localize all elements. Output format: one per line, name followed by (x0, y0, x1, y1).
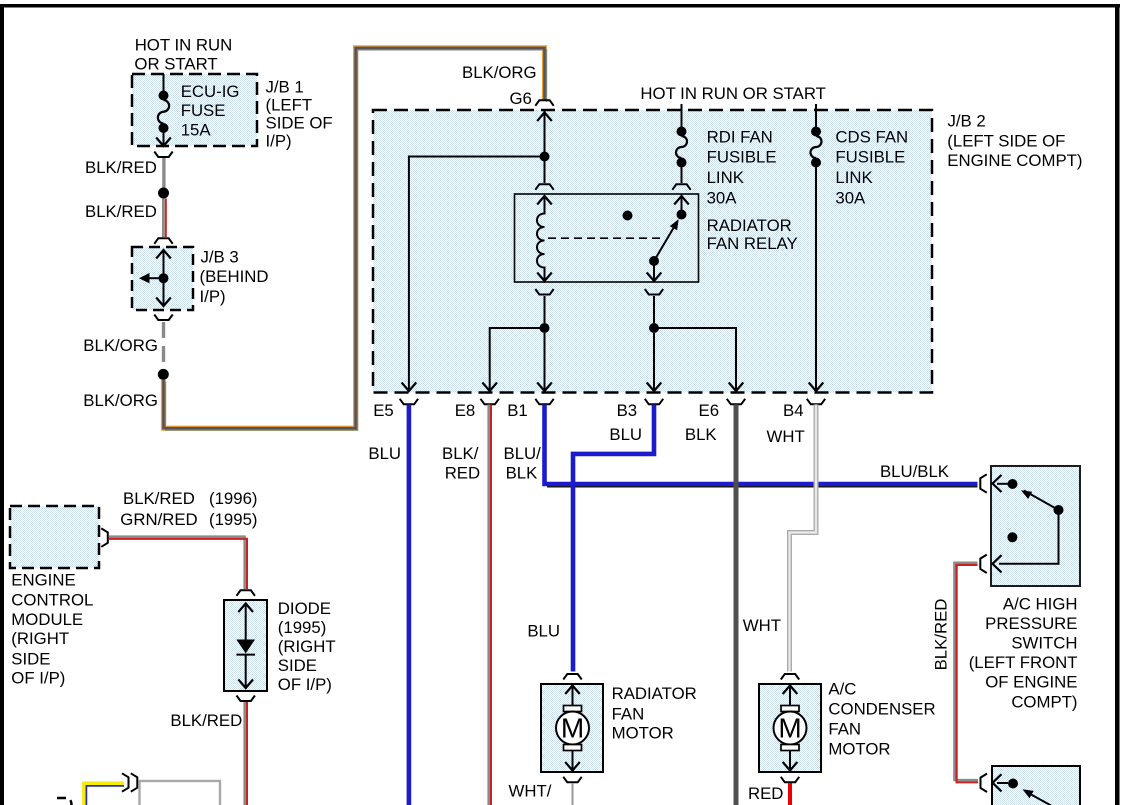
svg-text:RED: RED (445, 464, 480, 483)
label RED (748, 784, 783, 803)
label pin B4 (783, 401, 804, 420)
connector pair female (131, 773, 138, 791)
wire BLK/RED from E8 gray stripe (487, 405, 489, 805)
svg-text:(RIGHT: (RIGHT (278, 637, 336, 656)
svg-text:COMPT): COMPT) (1011, 692, 1077, 711)
label BLK/RED under E8 (442, 444, 480, 483)
border frame left (0, 4, 4, 805)
connector under J/B2 exit B1 (535, 399, 553, 405)
wire BLK/ORG dashed segment (162, 322, 165, 367)
fusible link CDS element (811, 136, 822, 158)
svg-text:B1: B1 (507, 401, 528, 420)
wire BLK/ORG loop dark core (164, 48, 545, 428)
fuse ECU-IG top terminal dot (159, 91, 169, 101)
svg-text:E5: E5 (373, 401, 394, 420)
label A/C HIGH PRESSURE SWITCH (969, 594, 1078, 711)
label HOT IN RUN OR START (top) (640, 84, 826, 103)
svg-text:BLK/RED: BLK/RED (85, 202, 157, 221)
label pin B3 (617, 401, 638, 420)
connector above radiator fan motor (563, 674, 581, 680)
wire diode down red stripe (246, 702, 248, 805)
label pin E5 (373, 401, 394, 420)
relay switch down arrow (647, 273, 662, 282)
switch lower path (999, 510, 1059, 564)
svg-text:LINK: LINK (835, 168, 872, 187)
wire ECM to diode red stripe (109, 539, 247, 589)
svg-text:I/P): I/P) (200, 287, 226, 306)
connector at ECM output (101, 528, 108, 546)
label WHT near motor (743, 616, 781, 635)
switch A/C HIGH PRESSURE SWITCH box (991, 466, 1080, 586)
svg-text:A/C HIGH: A/C HIGH (1003, 594, 1078, 613)
wire switch to B3 node (653, 296, 655, 323)
svg-text:G6: G6 (510, 89, 532, 108)
relay switch to B3 (653, 261, 655, 281)
relay coil (537, 196, 545, 281)
relay switch arm (654, 226, 675, 261)
label BLK/ORG second (83, 391, 158, 410)
svg-text:J/B 2: J/B 2 (948, 111, 986, 130)
svg-text:BLK: BLK (506, 464, 538, 483)
svg-text:B3: B3 (617, 401, 638, 420)
svg-text:OF I/P): OF I/P) (11, 669, 65, 688)
wire diode down gray stripe (243, 702, 245, 805)
svg-text:BLK/RED: BLK/RED (85, 158, 157, 177)
label BLK/RED rotated (932, 599, 951, 671)
wire E6 branch (654, 328, 736, 391)
svg-text:E8: E8 (455, 401, 476, 420)
diode symbol bar (236, 654, 255, 656)
label GRN/RED (1995) (120, 510, 257, 529)
diode up arrow (238, 604, 253, 640)
bottom switch entry arrow (993, 774, 1002, 791)
svg-text:(1995): (1995) (278, 618, 327, 637)
wire ECM to diode gray stripe (109, 537, 245, 589)
svg-text:SIDE: SIDE (11, 649, 50, 668)
motor A/C CONDENSER FAN MOTOR box (759, 684, 821, 772)
svg-text:(BEHIND: (BEHIND (200, 267, 269, 286)
wire WHT from B4 core (790, 405, 817, 672)
svg-text:PRESSURE: PRESSURE (985, 614, 1077, 633)
svg-text:CONDENSER: CONDENSER (828, 700, 935, 719)
connector under J/B2 exit B3 (645, 399, 663, 405)
svg-text:(LEFT SIDE OF: (LEFT SIDE OF (947, 132, 1065, 151)
wire B3 down (653, 333, 655, 391)
fusible link RDI top dot (677, 127, 687, 137)
svg-text:FUSIBLE: FUSIBLE (707, 147, 777, 166)
svg-text:BLK/RED: BLK/RED (123, 489, 195, 508)
svg-text:LINK: LINK (707, 168, 744, 187)
switch top contact dot (1008, 479, 1018, 489)
svg-text:HOT IN RUN OR START: HOT IN RUN OR START (640, 84, 826, 103)
svg-text:WHT: WHT (743, 616, 781, 635)
label J/B 3 (BEHIND I/P) (200, 248, 269, 307)
svg-text:BLK/ORG: BLK/ORG (83, 391, 158, 410)
border frame top (0, 4, 1120, 8)
connector above diode (237, 590, 255, 596)
label WHT/ cutoff (509, 782, 552, 801)
wire BLK/RED from E8 red stripe (490, 405, 492, 805)
connector at switch BLK/RED entry (980, 555, 987, 573)
switch top entry wire (997, 483, 1008, 485)
label RDI FAN FUSIBLE LINK 30A (707, 127, 777, 207)
connector under radiator fan motor (563, 777, 581, 783)
label HOT IN RUN OR START (left) (134, 35, 232, 73)
switch top entry arrow (993, 475, 1002, 492)
wire BLK/RED switch red stripe (957, 565, 978, 782)
label J/B 1 (LEFT SIDE OF I/P) (266, 77, 333, 150)
bottom switch arm (1032, 795, 1052, 805)
label BLK/RED (1996) (123, 489, 258, 508)
wire BLK/RED segment 2 gray (162, 199, 165, 238)
diode symbol triangle (236, 640, 255, 654)
wire BLU/BLK from B1 to switch (545, 405, 978, 485)
arrow down B1 exit (537, 383, 552, 392)
switch pivot dot (1054, 505, 1064, 515)
svg-text:ECU-IG: ECU-IG (181, 82, 240, 101)
wire E5 branch (409, 157, 545, 391)
condenser motor up arrow (783, 686, 798, 706)
svg-text:(RIGHT: (RIGHT (11, 629, 69, 648)
label RADIATOR FAN RELAY (707, 216, 798, 253)
wire WHT from B4 outline (790, 405, 817, 672)
svg-text:30A: 30A (835, 189, 866, 208)
svg-text:(1995): (1995) (209, 510, 258, 529)
label BLU near motor (527, 622, 560, 641)
arrow down E8 exit (482, 383, 497, 392)
fusible link CDS bottom dot (811, 158, 821, 168)
svg-text:SWITCH: SWITCH (1011, 634, 1077, 653)
bottom switch arm arrowhead (1023, 789, 1034, 798)
label BLK/RED second (85, 202, 157, 221)
wire BLK/RED switch gray stripe (954, 563, 978, 780)
label WHT under B4 (767, 427, 805, 446)
connector under J/B1 (154, 152, 172, 158)
switch bottom entry arrow (993, 555, 1002, 572)
switch arm arrowhead (1021, 490, 1032, 499)
svg-text:A/C: A/C (828, 680, 856, 699)
svg-text:FAN: FAN (828, 720, 861, 739)
label DIODE (1995) (RIGHT SIDE OF I/P) (278, 599, 336, 694)
bottom switch contact dot (1008, 779, 1018, 789)
junction node dot 2 (158, 369, 169, 380)
relay switch wire from RDI (681, 196, 683, 211)
node B1/E8 dot (540, 323, 550, 333)
svg-text:CDS FAN: CDS FAN (835, 127, 908, 146)
svg-text:BLK/: BLK/ (442, 444, 479, 463)
wire E8 branch (490, 328, 545, 391)
relay switch up arrow (674, 196, 689, 205)
radiator motor brush bottom (564, 745, 582, 751)
connector above relay switch (672, 184, 690, 190)
label CDS FAN FUSIBLE LINK 30A (835, 127, 908, 207)
label RADIATOR FAN MOTOR (612, 684, 697, 743)
label BLU/BLK (880, 462, 949, 481)
border frame right (1115, 4, 1120, 805)
svg-text:WHT/: WHT/ (509, 782, 552, 801)
wire BLU from E5 (407, 405, 412, 805)
svg-text:DIODE: DIODE (278, 599, 331, 618)
wire BLK/ORG loop orange casing (164, 48, 545, 428)
svg-text:30A: 30A (707, 189, 738, 208)
fuse ECU-IG bottom terminal dot (159, 123, 169, 133)
fusible link CDS top dot (811, 127, 821, 137)
J/B3 left branch with filled arrow (139, 273, 164, 283)
svg-text:BLK/ORG: BLK/ORG (462, 63, 537, 82)
svg-text:FUSE: FUSE (181, 101, 226, 120)
wire BLU/BLK black stripe (547, 486, 978, 488)
label BLK/RED first (85, 158, 157, 177)
radiator motor brush top (564, 706, 582, 712)
wire BLK/RED segment 1 (162, 158, 165, 188)
svg-text:(LEFT FRONT: (LEFT FRONT (969, 653, 1078, 672)
label pin E6 (699, 401, 720, 420)
wire BLK/RED segment 2 red stripe (165, 199, 167, 238)
diode box (224, 600, 267, 691)
svg-text:OF ENGINE: OF ENGINE (985, 673, 1077, 692)
svg-text:BLK/RED: BLK/RED (170, 711, 242, 730)
wire BLK/ORG loop green edge (165, 50, 546, 430)
fusible link RDI bottom dot (677, 158, 687, 168)
svg-text:WHT: WHT (767, 427, 805, 446)
fuse ECU-IG element (158, 100, 169, 124)
arrow down B4 exit (809, 383, 824, 392)
svg-text:(LEFT: (LEFT (266, 95, 313, 114)
ECM box fill+dashed border (10, 506, 99, 568)
wire RDI fusible link from HOT (681, 104, 683, 127)
svg-text:OF I/P): OF I/P) (278, 675, 332, 694)
label ECU-IG FUSE 15A (181, 82, 240, 140)
wire YEL yellow (84, 783, 124, 805)
condenser motor M letter (778, 713, 801, 744)
connector G6 above J/B2 (535, 100, 553, 106)
svg-text:E6: E6 (699, 401, 720, 420)
label BLK/ORG at G6 (462, 63, 537, 82)
J/B3 down arrow (156, 298, 171, 307)
arrow up below G6 (537, 113, 552, 122)
svg-text:FAN: FAN (612, 704, 645, 723)
connector at switch BLU/BLK entry (980, 474, 987, 492)
svg-text:BLU: BLU (609, 425, 642, 444)
svg-text:B4: B4 (783, 401, 804, 420)
svg-text:RDI FAN: RDI FAN (707, 127, 773, 146)
svg-text:BLK/RED: BLK/RED (932, 599, 951, 671)
svg-text:SIDE OF: SIDE OF (266, 113, 333, 132)
radiator motor down arrow (565, 751, 580, 771)
node B3/E6 dot (649, 323, 659, 333)
wire RDI to relay (681, 167, 683, 183)
relay switch arm arrowhead (670, 219, 679, 230)
J/B3 internal vertical wire (163, 251, 165, 305)
arrow down to J/B1 bottom (156, 132, 171, 146)
svg-text:BLK: BLK (685, 425, 717, 444)
svg-text:SIDE: SIDE (278, 656, 317, 675)
svg-text:ENGINE COMPT): ENGINE COMPT) (947, 151, 1082, 170)
wire CDS down to B4 exit (815, 167, 817, 391)
connector under relay coil (535, 289, 553, 295)
relay free contact dot (623, 211, 633, 221)
junction box J/B 1 fill+dashed border (132, 74, 257, 146)
motor RADIATOR FAN MOTOR box (541, 684, 603, 772)
connector under J/B2 exit E5 (400, 399, 418, 405)
switch (bottom, partial) box (992, 766, 1080, 805)
connector under condenser fan motor (781, 777, 799, 783)
wire coil to B1 node (544, 296, 546, 323)
wire CDS fusible link from HOT (815, 104, 817, 127)
svg-text:CONTROL: CONTROL (11, 591, 93, 610)
label BLK/RED under diode (170, 711, 242, 730)
svg-text:15A: 15A (181, 120, 212, 139)
svg-text:BLU: BLU (527, 622, 560, 641)
radiator motor M circle (556, 712, 589, 745)
wire node to relay coil (544, 161, 546, 183)
fusible link RDI element (676, 136, 687, 158)
wire RED below condenser motor (788, 783, 792, 805)
wire from G6 down to node (544, 111, 546, 152)
connector under J/B3 (154, 315, 172, 321)
junction box J/B 3 fill+dashed border (132, 247, 193, 310)
svg-text:RADIATOR: RADIATOR (707, 216, 792, 235)
connector above relay coil (535, 184, 553, 190)
J/B3 up arrow (156, 250, 171, 259)
connector under J/B2 exit B4 (807, 399, 825, 405)
label BLK under E6 (685, 425, 717, 444)
radiator motor up arrow (565, 686, 580, 706)
condenser motor M circle (774, 712, 807, 745)
svg-text:MODULE: MODULE (11, 610, 83, 629)
label ENGINE CONTROL MODULE (11, 570, 93, 687)
svg-text:GRN/RED: GRN/RED (120, 510, 197, 529)
label BLU/BLK under B1 (504, 444, 542, 483)
svg-text:J/B 1: J/B 1 (266, 77, 304, 96)
svg-text:ENGINE: ENGINE (11, 570, 75, 589)
label J/B 2 (LEFT SIDE OF ENGINE COMPT) (947, 111, 1082, 170)
relay switch fixed contact dot (677, 210, 687, 220)
svg-text:RED: RED (748, 784, 783, 803)
connector pair male (122, 773, 129, 791)
gray component box (partial) (140, 781, 221, 805)
junction box J/B 2 fill+dashed border (373, 110, 932, 393)
svg-text:BLU: BLU (368, 444, 401, 463)
switch arm (1024, 491, 1059, 511)
relay switch pivot dot (649, 256, 659, 266)
label A/C CONDENSER FAN MOTOR (828, 680, 935, 759)
connector above J/B3 (154, 238, 172, 244)
relay coil down arrow (537, 273, 552, 282)
svg-text:M: M (561, 713, 584, 744)
connector under relay switch (645, 289, 663, 295)
svg-text:MOTOR: MOTOR (612, 724, 674, 743)
wire WHT below radiator motor (572, 783, 574, 805)
label G6 (510, 89, 532, 108)
svg-text:BLU/: BLU/ (504, 444, 542, 463)
svg-text:FAN RELAY: FAN RELAY (707, 234, 798, 253)
wire into ECU-IG fuse (163, 74, 165, 91)
diode down arrow (238, 655, 253, 688)
condenser motor down arrow (783, 751, 798, 771)
svg-text:RADIATOR: RADIATOR (612, 684, 697, 703)
wire BLU from B3 to radiator fan motor (573, 405, 654, 672)
J/B3 junction dot (159, 273, 169, 283)
label pin E8 (455, 401, 476, 420)
connector under diode (237, 696, 255, 702)
label BLU under E5 (368, 444, 401, 463)
dashed box corner fragment (57, 798, 72, 805)
wire B1 down (544, 333, 546, 391)
relay RADIATOR FAN RELAY box (515, 194, 699, 282)
junction node dot 1 (158, 188, 169, 199)
arrow down E6 exit (729, 383, 744, 392)
connector under J/B2 exit E6 (727, 399, 745, 405)
svg-text:I/P): I/P) (266, 131, 292, 150)
svg-text:BLU/BLK: BLU/BLK (880, 462, 949, 481)
label BLK/ORG first (83, 336, 158, 355)
arrow down E5 exit (402, 383, 417, 392)
svg-text:(1996): (1996) (209, 489, 258, 508)
relay coil up arrow (537, 196, 552, 205)
svg-text:BLK/ORG: BLK/ORG (83, 336, 158, 355)
switch free contact dot (1007, 532, 1017, 542)
condenser motor brush top (781, 706, 799, 712)
connector at bottom switch entry (981, 774, 988, 792)
connector above condenser fan motor (781, 674, 799, 680)
svg-text:FUSIBLE: FUSIBLE (835, 147, 905, 166)
label pin B1 (507, 401, 528, 420)
radiator motor M letter (561, 713, 584, 744)
svg-text:HOT IN RUN: HOT IN RUN (135, 35, 233, 54)
wire BLK from E6 (734, 405, 739, 805)
svg-text:MOTOR: MOTOR (828, 740, 890, 759)
node G6 branch dot (540, 152, 550, 162)
relay internal dashed link (548, 237, 661, 239)
connector under J/B2 exit E8 (481, 399, 499, 405)
condenser motor brush bottom (781, 745, 799, 751)
bottom switch entry wire (997, 782, 1008, 784)
label BLU under B3 (609, 425, 642, 444)
wire YEL blue stripe (86, 786, 124, 805)
arrow down B3 exit (647, 383, 662, 392)
svg-text:J/B 3: J/B 3 (201, 248, 239, 267)
svg-text:OR START: OR START (134, 55, 217, 74)
svg-text:M: M (778, 713, 801, 744)
